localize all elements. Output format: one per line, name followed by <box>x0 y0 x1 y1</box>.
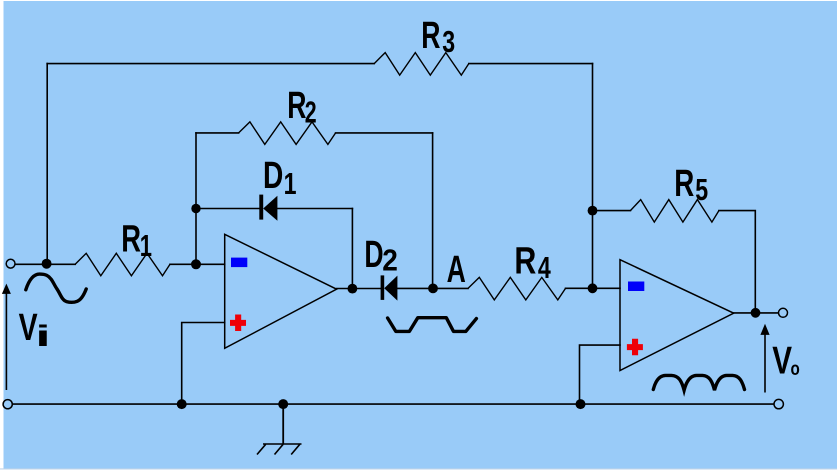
svg-text:1: 1 <box>284 166 297 201</box>
U1 inverting input mark <box>231 258 247 268</box>
label D2 main <box>364 232 383 275</box>
waveform: input sine <box>26 274 86 302</box>
svg-text:R: R <box>421 13 440 56</box>
label R5 main <box>674 163 694 205</box>
op-amp U2 <box>620 260 734 371</box>
Vi arrow <box>2 284 11 390</box>
node: U2 inverting junction <box>588 283 598 293</box>
svg-text:R: R <box>287 83 306 126</box>
node: output junction <box>751 308 761 318</box>
svg-text:i: i <box>35 320 50 353</box>
node: input junction <box>42 259 52 269</box>
resistor R5 <box>630 200 719 223</box>
resistor R3 <box>374 53 469 76</box>
wire R5 branch left <box>593 210 631 212</box>
wire right vertical from R3 to op-amp U2 input <box>592 64 594 289</box>
svg-text:3: 3 <box>442 24 455 59</box>
wire U1 output to D2 <box>337 288 381 290</box>
wire D1 branch right <box>278 208 353 210</box>
label R4 sub <box>538 250 551 285</box>
node: U1 inverting input junction <box>191 259 201 269</box>
svg-text:R: R <box>674 163 694 205</box>
U2 inverting input mark <box>628 282 644 292</box>
label Vo sub <box>791 357 800 379</box>
terminal: input top <box>6 259 15 268</box>
label Vi main <box>19 307 39 349</box>
terminal: output bottom <box>774 399 783 408</box>
wire bottom ground rail <box>12 403 774 405</box>
wire top horizontal right of R3 <box>469 63 593 65</box>
label R3 main <box>421 13 440 56</box>
node: U1 output junction <box>348 284 358 294</box>
svg-text:A: A <box>447 247 466 290</box>
waveform: full-wave at output <box>653 375 744 390</box>
wire R4 to U2 inverting input <box>566 287 621 289</box>
svg-text:D: D <box>364 232 383 275</box>
resistor R1 <box>75 253 170 275</box>
resistor R2 <box>239 122 336 144</box>
svg-text:5: 5 <box>695 172 708 207</box>
op-amp U1 <box>225 234 337 348</box>
label Vo main <box>772 340 792 383</box>
label D2 sub <box>382 243 398 277</box>
wire R5 to output node <box>719 211 755 313</box>
wire D1 branch left <box>196 208 260 210</box>
Vo arrow <box>760 324 769 393</box>
label R4 main <box>514 241 536 283</box>
svg-text:4: 4 <box>538 250 551 285</box>
diode D1 <box>259 195 277 221</box>
label A <box>447 247 466 290</box>
waveform: half-wave at node A <box>388 318 477 332</box>
label R2 main <box>287 83 306 126</box>
label D1 main <box>263 155 283 197</box>
label R1 sub <box>140 229 152 263</box>
svg-text:2: 2 <box>305 94 317 129</box>
node: rail junction ground <box>278 399 288 409</box>
label R3 sub <box>442 24 455 59</box>
svg-text:R: R <box>514 241 536 283</box>
wire vertical node at x=196 R2 left leg <box>195 133 197 264</box>
node A junction <box>428 284 438 294</box>
label R2 sub <box>305 94 317 129</box>
svg-text:D: D <box>263 155 283 197</box>
wire left vertical feedback riser <box>46 64 48 265</box>
diode D2 <box>381 275 398 300</box>
wire input terminal to R1 <box>15 263 75 265</box>
wire U2 output to terminal <box>734 312 779 314</box>
U1 non-inverting input mark <box>230 315 246 332</box>
wire U1 non-inverting input <box>182 323 225 405</box>
svg-text:V: V <box>772 340 792 383</box>
label R1 main <box>121 218 141 260</box>
terminal: output top <box>779 308 788 317</box>
label D1 sub <box>284 166 297 201</box>
ground <box>257 404 302 454</box>
label Vi sub <box>35 320 50 353</box>
node: R5 branch junction <box>588 206 598 216</box>
resistor R4 <box>468 277 566 300</box>
wire D2 to node A to R4 <box>397 287 468 289</box>
terminal: input bottom <box>3 400 12 409</box>
node: rail junction U1 plus <box>177 399 187 409</box>
wire D1 branch down to U1 output <box>351 209 353 289</box>
wire top horizontal left of R3 <box>47 63 374 65</box>
node: D1 left junction <box>191 204 200 213</box>
wire R2 top right <box>336 132 433 134</box>
svg-text:R: R <box>121 218 141 260</box>
label R5 sub <box>695 172 708 207</box>
wire R2 right leg down to node A <box>432 133 434 289</box>
wire R1 to op-amp U1 inverting input <box>170 263 225 265</box>
svg-text:o: o <box>791 357 800 379</box>
wire R2 top left <box>196 132 239 134</box>
svg-text:2: 2 <box>382 243 398 277</box>
wire U2 non-inverting input <box>580 345 621 404</box>
svg-text:1: 1 <box>140 229 152 263</box>
U2 non-inverting input mark <box>627 339 643 356</box>
node: rail junction U2 plus <box>576 399 586 409</box>
